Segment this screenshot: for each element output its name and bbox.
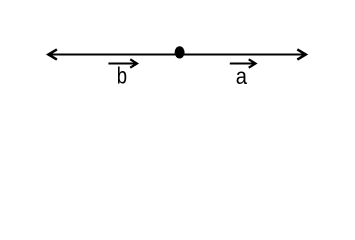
svg-text:b: b: [117, 63, 127, 89]
svg-text:a: a: [236, 63, 248, 89]
